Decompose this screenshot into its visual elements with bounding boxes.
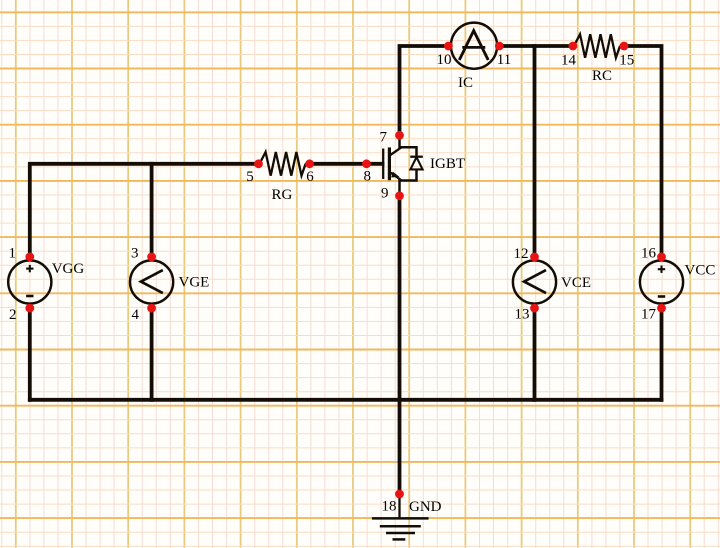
svg-text:11: 11: [497, 52, 511, 68]
wire VGE bottom to rail: [150, 308, 154, 400]
svg-text:9: 9: [381, 186, 389, 202]
svg-text:1: 1: [9, 246, 17, 262]
node 13: [530, 304, 539, 313]
svg-text:4: 4: [132, 307, 140, 323]
svg-text:RC: RC: [592, 68, 612, 84]
node 2: [25, 304, 34, 313]
wire emitter down to ground node: [398, 196, 402, 494]
node 1: [25, 253, 34, 262]
wire VCE branch from top rail: [533, 46, 537, 257]
wire collector riser and top rail to node 10: [400, 46, 449, 135]
wire VCC bottom to rail: [660, 308, 664, 400]
transistor IGBT with anti-parallel diode: [383, 135, 423, 196]
resistor RG: [260, 152, 310, 176]
wire node 6 to node 8 to IGBT gate: [310, 162, 383, 166]
voltmeter VGE: [130, 260, 173, 303]
wire VCE bottom to rail: [533, 308, 537, 400]
node 7: [395, 131, 404, 140]
svg-text:13: 13: [515, 307, 530, 323]
svg-text:12: 12: [514, 246, 529, 262]
voltmeter VCE: [513, 260, 556, 303]
wire node 15 to top-right corner down to node 16: [624, 46, 662, 257]
svg-text:6: 6: [306, 169, 314, 185]
svg-text:16: 16: [641, 246, 657, 262]
node 5: [254, 159, 263, 168]
svg-text:VCE: VCE: [561, 275, 591, 291]
resistor RC: [574, 34, 624, 58]
wire bottom rail: [30, 398, 662, 402]
svg-text:14: 14: [561, 53, 577, 69]
node 8: [362, 159, 371, 168]
wire node 11 to node 14: [499, 44, 573, 48]
voltage source VGG: [8, 260, 51, 303]
svg-text:18: 18: [382, 499, 397, 515]
node 16: [657, 253, 666, 262]
wire VGG bottom to rail: [28, 308, 32, 400]
node 17: [657, 304, 666, 313]
wire left rail from VGG corner to node 5: [30, 164, 259, 257]
svg-text:IGBT: IGBT: [430, 156, 465, 172]
node 15: [620, 42, 629, 51]
node 6: [305, 159, 314, 168]
svg-text:17: 17: [641, 307, 657, 323]
ammeter IC: [451, 23, 497, 69]
svg-text:GND: GND: [409, 499, 442, 515]
wire VGE branch up: [150, 164, 154, 257]
ground: [372, 494, 429, 539]
svg-text:3: 3: [131, 246, 139, 262]
node 10: [444, 42, 453, 51]
svg-text:8: 8: [363, 169, 371, 185]
node 9: [395, 191, 404, 200]
svg-text:5: 5: [246, 169, 254, 185]
svg-text:7: 7: [380, 130, 388, 146]
voltage source VCC: [640, 260, 683, 303]
node 18: [395, 490, 404, 499]
svg-text:VCC: VCC: [685, 263, 716, 279]
svg-text:15: 15: [619, 53, 634, 69]
svg-text:2: 2: [9, 307, 17, 323]
node 4: [147, 304, 156, 313]
svg-text:IC: IC: [458, 75, 473, 91]
svg-text:VGE: VGE: [179, 274, 210, 290]
node 14: [569, 42, 578, 51]
svg-text:10: 10: [437, 52, 452, 68]
svg-text:VGG: VGG: [52, 261, 85, 277]
node 3: [147, 253, 156, 262]
svg-text:RG: RG: [272, 187, 293, 203]
node 12: [530, 253, 539, 262]
node 11: [495, 42, 504, 51]
